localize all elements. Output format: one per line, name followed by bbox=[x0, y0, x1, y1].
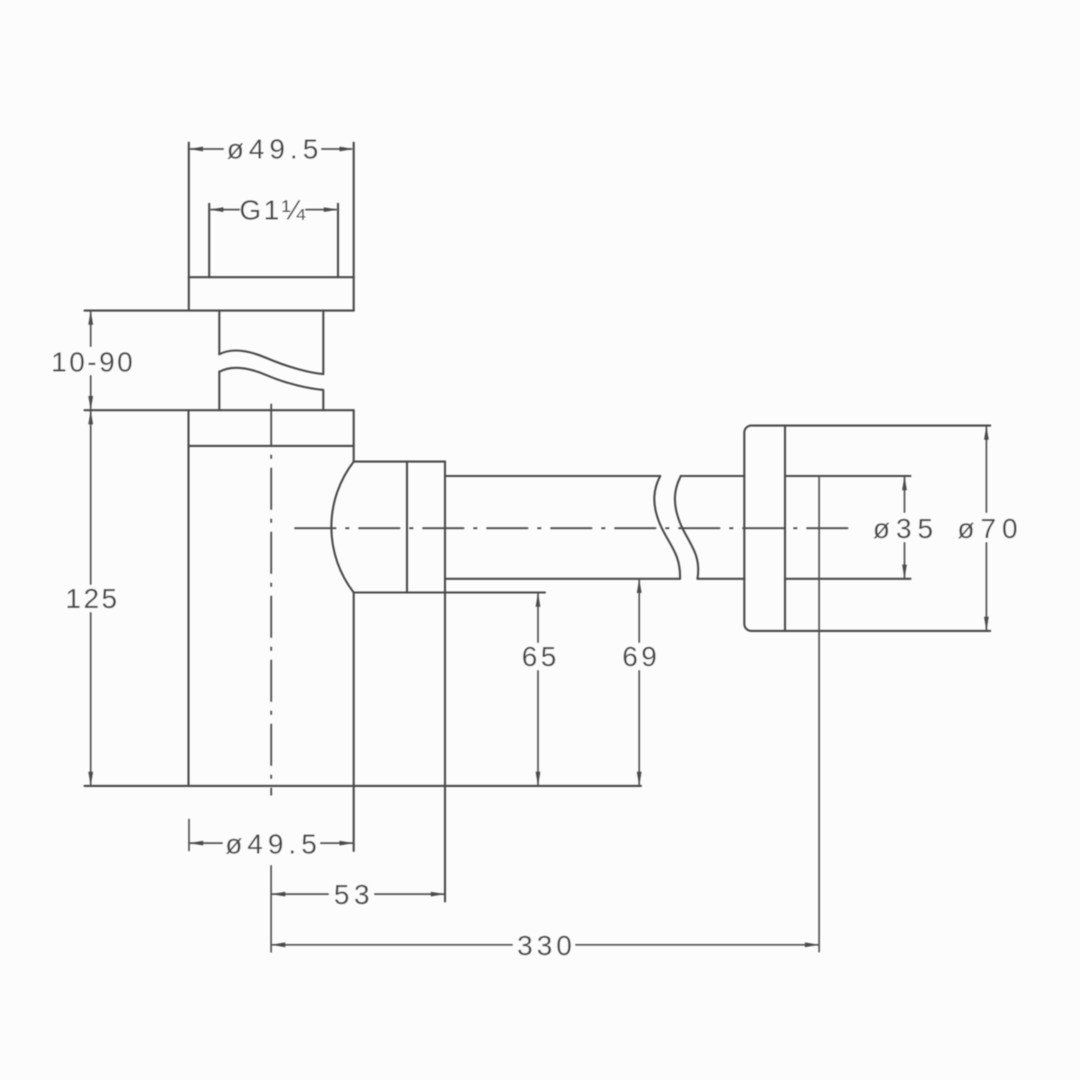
body bottom edge with extension lines bbox=[85, 785, 641, 787]
top nut right side / extension line bbox=[353, 143, 355, 311]
flange bottom extension line for dia70 bbox=[785, 630, 990, 632]
body top edge with left extension line bbox=[85, 409, 354, 411]
svg-text:ø35: ø35 bbox=[873, 513, 939, 544]
outlet pipe break left wavy line bbox=[654, 476, 680, 579]
inlet pipe left wall (lower) bbox=[218, 372, 220, 411]
dim 10-90 dimension line bbox=[90, 312, 92, 409]
arrow 69 top bbox=[637, 579, 642, 593]
text halo 330 bbox=[513, 931, 575, 959]
dim 330 right extension line bbox=[818, 476, 820, 952]
top nut left side / extension line bbox=[188, 143, 190, 311]
arrow 125 top bbox=[88, 410, 93, 424]
arrow 330 right bbox=[805, 942, 819, 947]
arrow dia49.5 top left bbox=[189, 147, 203, 152]
wall flange rounded rectangle bbox=[744, 426, 785, 631]
dim 69 dimension line bbox=[638, 580, 640, 785]
outlet pipe bottom wall (left of break) bbox=[445, 578, 680, 580]
svg-text:65: 65 bbox=[522, 641, 560, 672]
arrow dia35 top bbox=[902, 476, 907, 490]
outlet nut top edge bbox=[354, 461, 445, 463]
arrow 10-90 bottom bbox=[88, 396, 93, 410]
vertical dash-dot centerline of body bbox=[270, 404, 272, 796]
outlet pipe break right wavy line bbox=[675, 476, 698, 579]
text halo dia49.5 bottom bbox=[223, 829, 320, 858]
arrow 10-90 top bbox=[88, 311, 93, 325]
svg-text:125: 125 bbox=[65, 583, 119, 614]
text halo 125 bbox=[62, 585, 120, 612]
svg-text:ø49.5: ø49.5 bbox=[225, 829, 322, 860]
text halo dia35 bbox=[869, 513, 936, 542]
text halo 10-90 bbox=[47, 347, 136, 375]
dim G1-1/4 dimension line bbox=[211, 209, 336, 211]
pipe top extension line for dia35 bbox=[785, 475, 911, 477]
dim dia49.5 bottom left extension line bbox=[188, 820, 190, 851]
svg-text:10-90: 10-90 bbox=[51, 347, 135, 378]
arrow dia70 top bbox=[984, 426, 989, 440]
dim dia49.5 top dimension line bbox=[190, 148, 352, 150]
outlet pipe top wall (left of break) bbox=[445, 475, 660, 477]
outlet nut right edge, continues as extension line for 53 bbox=[444, 462, 446, 902]
dim dia70 dimension line bbox=[985, 427, 987, 630]
arrow 53 left bbox=[271, 892, 285, 897]
arrow dia49.5 bottom left bbox=[189, 841, 203, 846]
outlet pipe top wall (right of break) bbox=[681, 475, 745, 477]
arrow 69 bottom bbox=[637, 772, 642, 786]
arrow dia35 bottom bbox=[902, 565, 907, 579]
outlet pipe bottom wall (right of break) bbox=[698, 578, 745, 580]
arrow G1-1/4 left bbox=[209, 207, 223, 212]
svg-text:330: 330 bbox=[517, 930, 576, 961]
text halo G1-1/4 bbox=[240, 196, 305, 224]
inlet pipe right wall (upper) bbox=[322, 311, 324, 374]
dim 65 dimension line bbox=[537, 594, 539, 785]
top nut flange bottom with left extension line bbox=[85, 310, 354, 312]
outlet nut divider line bbox=[406, 462, 408, 593]
body left side bbox=[187, 410, 189, 786]
outlet nut bottom edge, continues as extension line for 65 bbox=[354, 591, 545, 593]
G1-1/4 thread inner right line bbox=[337, 204, 339, 277]
dim 53 dimension line bbox=[272, 893, 444, 895]
svg-text:53: 53 bbox=[334, 879, 374, 910]
svg-text:ø49.5: ø49.5 bbox=[227, 134, 324, 165]
outlet nut rounded cap arc bbox=[331, 462, 353, 593]
body right side below outlet nut, continues as extension line bbox=[353, 593, 355, 852]
dim 125 dimension line bbox=[90, 412, 92, 785]
text halo 65 bbox=[518, 643, 559, 670]
top nut shoulder line bbox=[189, 276, 354, 278]
inlet pipe break lower wavy line bbox=[219, 368, 323, 390]
text halo dia70 bbox=[955, 513, 1021, 542]
dim 330 dimension line bbox=[272, 944, 818, 946]
svg-text:ø70: ø70 bbox=[957, 513, 1023, 544]
text halo dia49.5 top bbox=[224, 134, 321, 162]
text halo 69 bbox=[619, 643, 660, 670]
horizontal dash-dot centerline of outlet pipe bbox=[294, 527, 852, 529]
arrow G1-1/4 right bbox=[324, 207, 338, 212]
arrow dia49.5 top right bbox=[340, 147, 354, 152]
dim dia49.5 bottom dimension line bbox=[190, 842, 353, 844]
body collar line bbox=[189, 445, 354, 447]
inlet pipe right wall (lower) bbox=[322, 391, 324, 410]
body right side above outlet nut bbox=[353, 410, 355, 461]
svg-text:69: 69 bbox=[622, 641, 660, 672]
pipe bottom extension line for dia35 bbox=[785, 578, 911, 580]
arrow 65 top bbox=[536, 593, 541, 607]
G1-1/4 thread inner left line bbox=[208, 204, 210, 277]
inlet pipe left wall (upper) bbox=[218, 311, 220, 355]
dim 53 and 330 shared left extension line bbox=[270, 866, 272, 952]
text halo 53 bbox=[329, 880, 374, 908]
dim dia35 dimension line bbox=[904, 477, 906, 578]
svg-text:G1¼: G1¼ bbox=[239, 195, 307, 226]
inlet pipe break upper wavy line bbox=[219, 351, 323, 375]
arrow dia49.5 bottom right bbox=[340, 841, 354, 846]
arrow 125 bottom bbox=[88, 772, 93, 786]
arrow dia70 bottom bbox=[984, 617, 989, 631]
arrow 330 left bbox=[271, 942, 285, 947]
flange top extension line for dia70 bbox=[785, 425, 990, 427]
arrow 65 bottom bbox=[536, 772, 541, 786]
arrow 53 right bbox=[431, 892, 445, 897]
